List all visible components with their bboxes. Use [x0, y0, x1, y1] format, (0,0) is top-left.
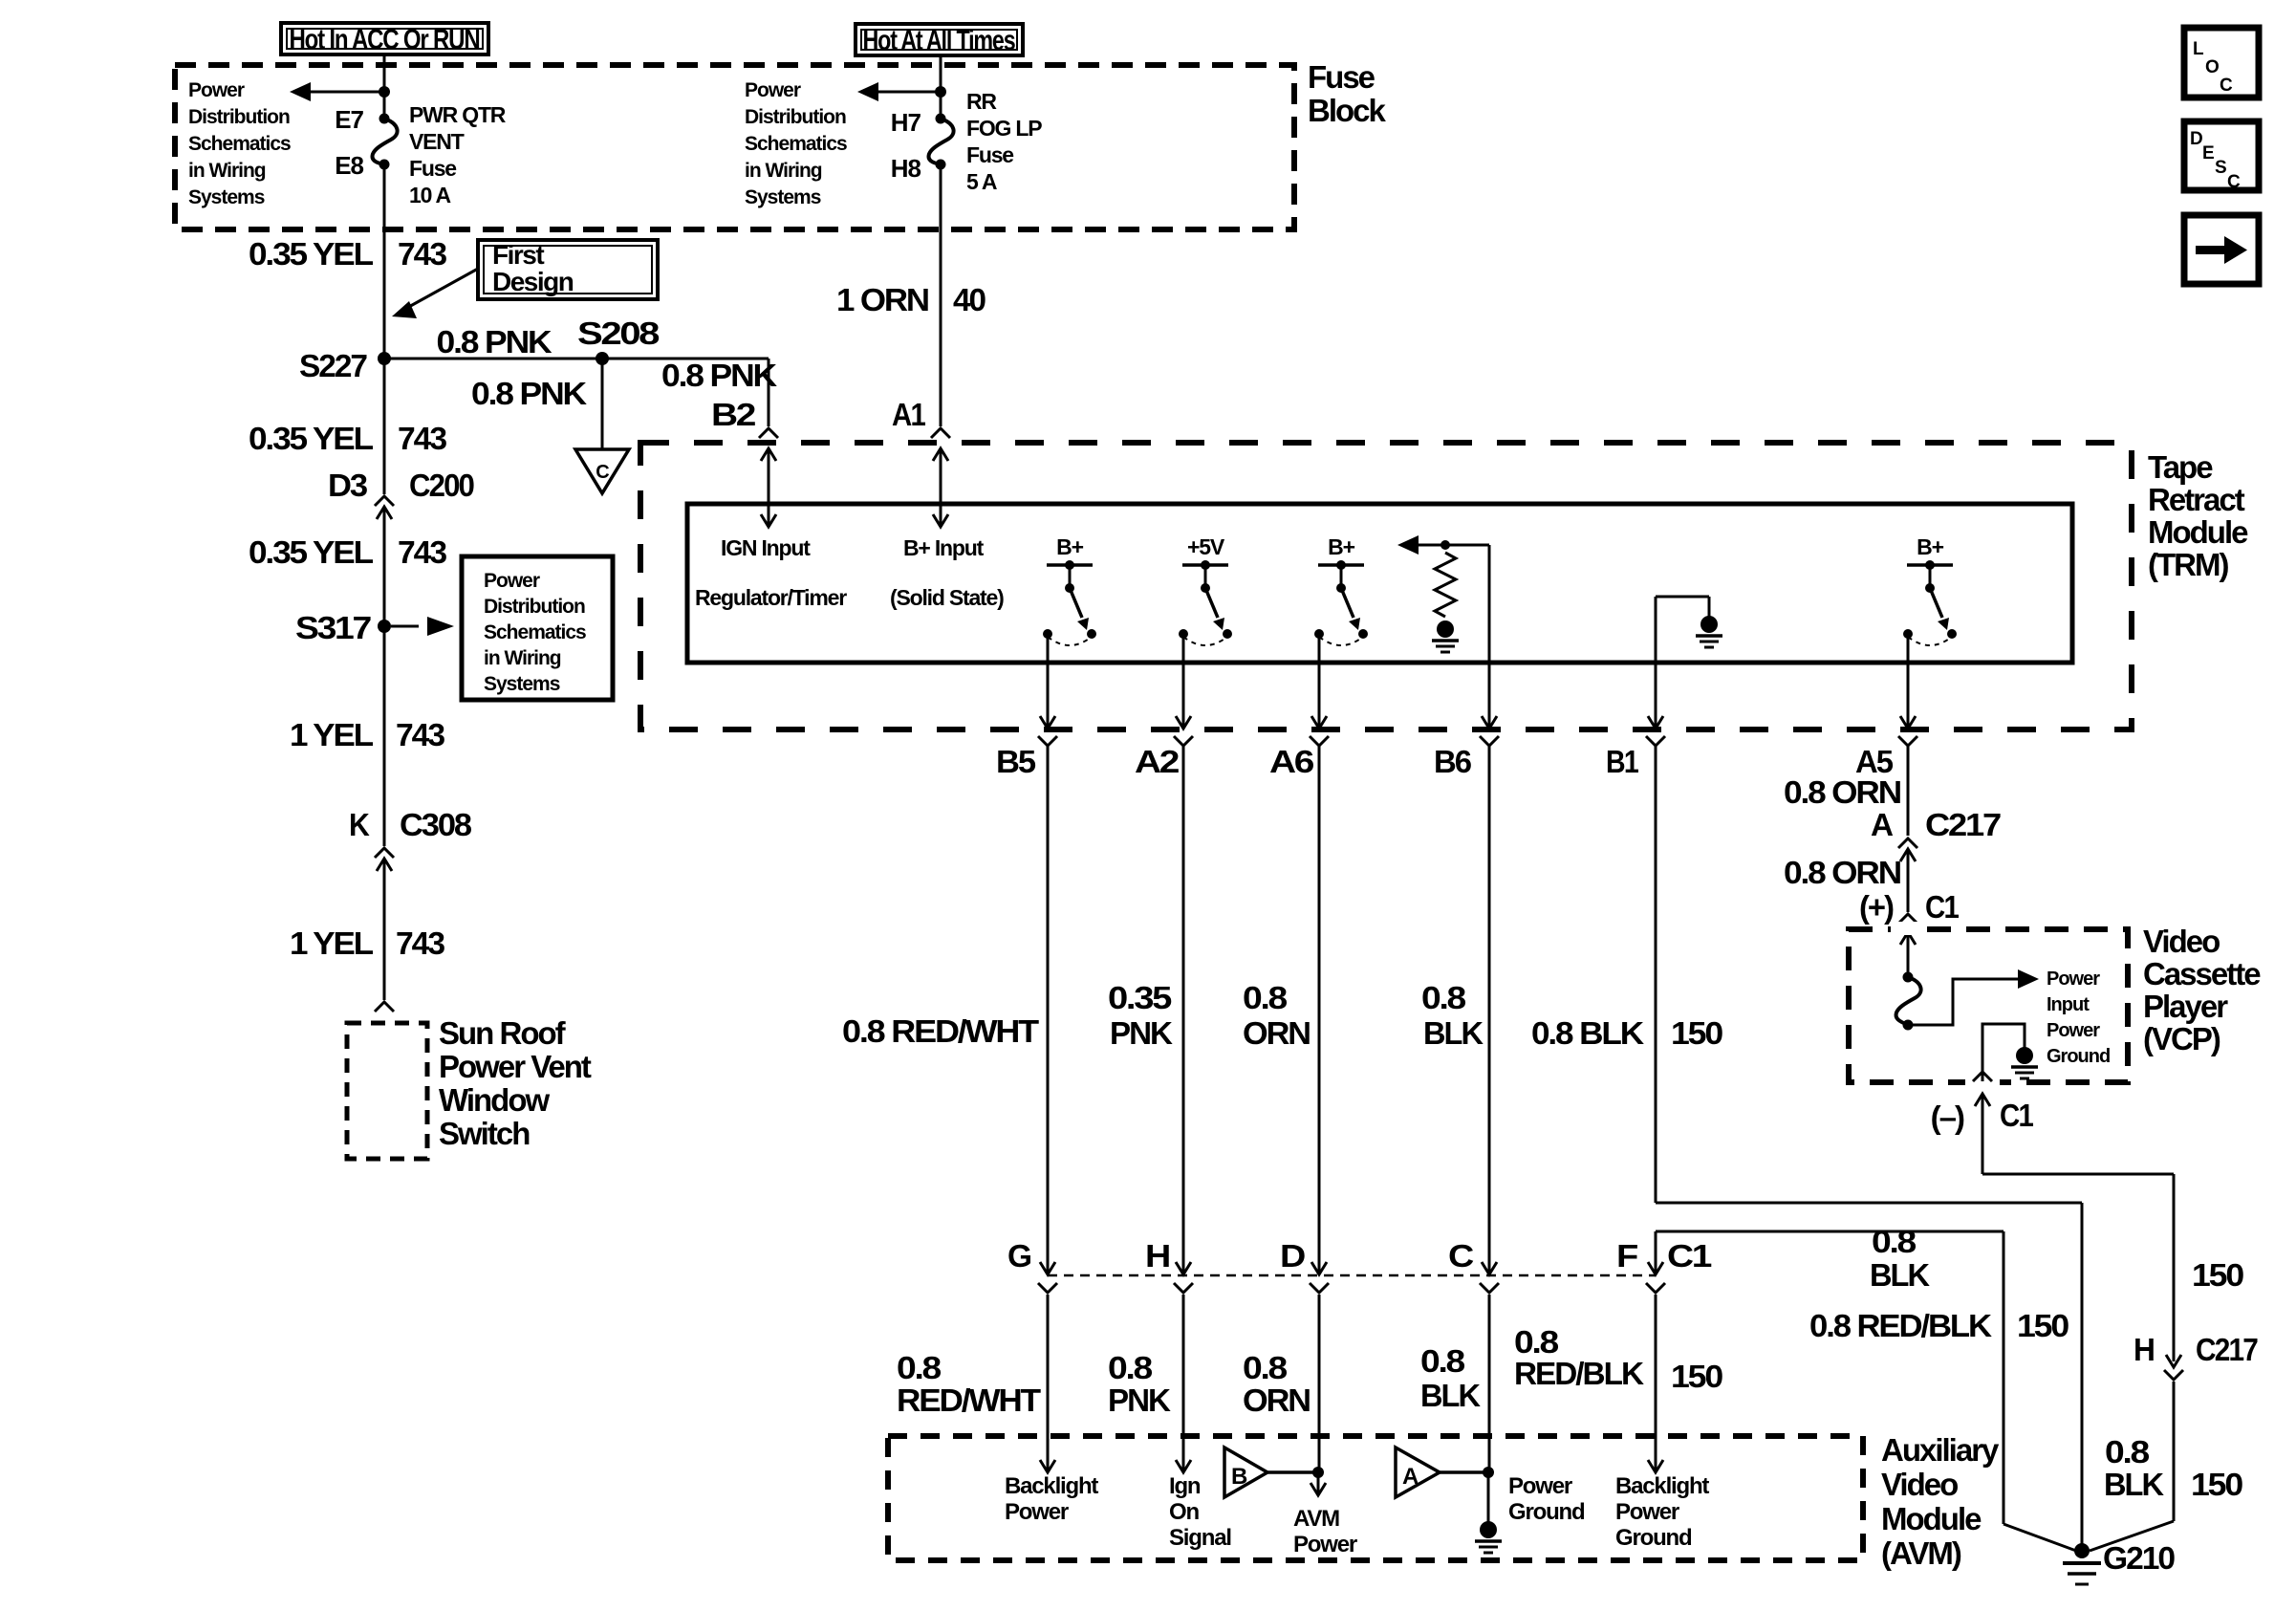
note box: Power Distribution Schematics in Wiring Systems	[462, 556, 613, 700]
arrow: power distribution feed (left)	[304, 91, 384, 94]
svg-text:Power Vent: Power Vent	[439, 1049, 592, 1084]
svg-text:C200: C200	[409, 468, 474, 503]
junction: AVM power node	[1312, 1467, 1324, 1478]
svg-text:0.35 YEL: 0.35 YEL	[249, 236, 374, 272]
wire: B5 to AVM G	[1047, 746, 1050, 1274]
svg-text:C1: C1	[2000, 1098, 2033, 1133]
svg-text:FOG LP: FOG LP	[966, 116, 1042, 141]
ground (B1 column, internal)	[1700, 616, 1718, 633]
wire: Hot In ACC Or RUN feed down to fuse E7	[383, 54, 386, 119]
svg-text:RED/BLK: RED/BLK	[1514, 1356, 1644, 1391]
svg-text:PNK: PNK	[1110, 1015, 1173, 1051]
connector F at AVM harness	[1648, 1262, 1663, 1274]
svg-text:Window: Window	[439, 1082, 550, 1118]
svg-text:B+: B+	[1917, 534, 1943, 559]
wire: B6 internal drop	[1488, 545, 1491, 729]
svg-text:S: S	[2215, 158, 2226, 178]
wire: branch down to TRM B2	[768, 359, 770, 426]
svg-text:Input: Input	[2047, 994, 2090, 1015]
connector half B2	[759, 428, 778, 438]
svg-text:ORN: ORN	[1243, 1015, 1310, 1051]
svg-text:O: O	[2205, 57, 2219, 77]
wire: Hot At All Times feed down to fuse H7	[940, 56, 942, 119]
buffer A (AVM)	[1396, 1448, 1440, 1497]
fuse symbol inside VCP	[1903, 972, 1914, 983]
svg-text:Power: Power	[2047, 969, 2100, 990]
ground C (triangle)	[575, 449, 629, 493]
svg-text:H: H	[2134, 1332, 2154, 1367]
svg-text:E: E	[2202, 143, 2214, 163]
ground stud G210	[2074, 1543, 2090, 1558]
svg-text:B1: B1	[1606, 744, 1638, 779]
svg-text:150: 150	[2192, 1257, 2243, 1293]
svg-text:BLK: BLK	[1420, 1378, 1481, 1413]
svg-text:Ground: Ground	[1508, 1499, 1585, 1525]
arrow pair: IGN input wire	[761, 448, 776, 461]
svg-text:Module: Module	[1881, 1501, 1982, 1536]
svg-text:Fuse: Fuse	[409, 156, 456, 181]
arrow: Backlight Power input	[1040, 1460, 1055, 1472]
svg-text:Video: Video	[2143, 924, 2220, 959]
svg-text:0.8 BLK: 0.8 BLK	[1531, 1015, 1644, 1051]
splice S227	[378, 352, 391, 365]
svg-text:ORN: ORN	[1243, 1382, 1310, 1418]
svg-text:On: On	[1169, 1499, 1199, 1525]
wire: A5 to VCP (0.8 ORN)	[1907, 746, 1910, 836]
wire: B1 internal drop	[1655, 597, 1657, 729]
wire: S208 down to ground C	[601, 359, 604, 449]
svg-text:Design: Design	[492, 267, 574, 296]
svg-text:1 ORN: 1 ORN	[836, 282, 928, 317]
fuse PWR QTR VENT 10A (E7/E8)	[379, 114, 390, 124]
svg-text:0.8: 0.8	[1108, 1350, 1153, 1385]
svg-text:in Wiring: in Wiring	[188, 160, 266, 182]
svg-text:First: First	[492, 240, 544, 270]
svg-text:Video: Video	[1881, 1467, 1958, 1502]
svg-text:H7: H7	[891, 108, 921, 137]
svg-text:Schematics: Schematics	[484, 621, 586, 643]
svg-text:K: K	[349, 807, 370, 842]
svg-text:150: 150	[2017, 1308, 2069, 1343]
label box: Hot In ACC Or RUN	[281, 23, 488, 54]
wires: G,H,D,C,F into AVM	[1047, 1295, 1050, 1470]
svg-text:VENT: VENT	[409, 129, 465, 154]
fuse block dashed box	[175, 65, 1294, 229]
svg-text:G: G	[1007, 1238, 1030, 1274]
svg-text:10 A: 10 A	[409, 183, 451, 207]
junction: hot feed node H	[935, 86, 946, 98]
wire: S227 to S208 to B2 drop (0.8 PNK)	[384, 358, 769, 360]
svg-text:0.8: 0.8	[1243, 1350, 1288, 1385]
svg-text:743: 743	[398, 236, 447, 272]
arrow pair: B+ input wire	[933, 448, 948, 461]
svg-text:0.35 YEL: 0.35 YEL	[249, 421, 374, 456]
icon box arrow	[2184, 215, 2259, 284]
svg-text:BLK: BLK	[2104, 1467, 2164, 1502]
svg-text:Ground: Ground	[1615, 1525, 1692, 1551]
svg-text:0.35: 0.35	[1108, 980, 1172, 1015]
svg-text:Power: Power	[484, 570, 540, 592]
arrow: S317 callout to power distribution note	[391, 625, 419, 628]
svg-text:D: D	[2190, 129, 2202, 149]
switch arm +5V	[1205, 588, 1218, 618]
svg-text:Hot In ACC Or RUN: Hot In ACC Or RUN	[290, 24, 480, 55]
svg-text:B+: B+	[1056, 534, 1083, 559]
wire: B1 internal elbow to ground	[1656, 596, 1709, 599]
svg-text:743: 743	[396, 925, 445, 961]
svg-text:+5V: +5V	[1187, 534, 1225, 559]
connector B1 at TRM edge	[1648, 716, 1663, 729]
arrow up into VCP	[1975, 1094, 1990, 1106]
svg-text:0.8 ORN: 0.8 ORN	[1784, 774, 1900, 810]
wire: VCP power input path	[1908, 979, 2025, 1025]
svg-text:(–): (–)	[1931, 1099, 1964, 1135]
ground (resistor, internal)	[1437, 620, 1454, 638]
svg-text:Fuse: Fuse	[1308, 59, 1375, 95]
in-line connector A / C217	[1898, 838, 1917, 848]
svg-text:150: 150	[1671, 1359, 1722, 1394]
svg-text:RR: RR	[966, 89, 997, 114]
module: Auxiliary Video Module (AVM) dashed box	[888, 1436, 1863, 1560]
svg-text:Ground: Ground	[2047, 1046, 2110, 1067]
switch arm B+	[1341, 588, 1354, 618]
svg-text:Retract: Retract	[2148, 482, 2245, 517]
svg-text:Power: Power	[745, 79, 801, 101]
svg-text:A: A	[1402, 1464, 1419, 1490]
connector C at AVM harness	[1482, 1262, 1497, 1274]
svg-text:PWR QTR: PWR QTR	[409, 102, 507, 127]
connector half at sunroof switch	[375, 1002, 394, 1012]
svg-text:Distribution: Distribution	[745, 106, 846, 128]
svg-text:C217: C217	[2196, 1332, 2258, 1367]
svg-text:BLK: BLK	[1423, 1015, 1484, 1051]
svg-text:150: 150	[1671, 1015, 1722, 1051]
svg-text:0.8: 0.8	[897, 1350, 942, 1385]
svg-text:(Solid State): (Solid State)	[890, 585, 1004, 610]
svg-text:B5: B5	[996, 744, 1036, 779]
wire: S227 down to C200 (0.35 YEL 743)	[383, 359, 386, 494]
svg-text:B+: B+	[1328, 534, 1354, 559]
svg-text:C308: C308	[400, 807, 472, 842]
svg-text:Fuse: Fuse	[966, 142, 1013, 167]
svg-text:Systems: Systems	[745, 186, 821, 208]
svg-text:0.8: 0.8	[1872, 1224, 1917, 1259]
wire: B1 drop (0.8 BLK 150)	[1655, 746, 1657, 1203]
svg-text:Power: Power	[1005, 1499, 1069, 1525]
wire: B1 elbow right and down to G210	[1656, 1202, 2082, 1205]
svg-text:AVM: AVM	[1293, 1506, 1339, 1532]
svg-text:743: 743	[396, 717, 445, 752]
connector A2 at TRM edge	[1176, 716, 1191, 729]
connector B5 at TRM edge	[1040, 716, 1055, 729]
icon arrow	[2196, 246, 2224, 254]
wire: A6 to AVM D	[1318, 746, 1321, 1274]
svg-text:(VCP): (VCP)	[2143, 1021, 2220, 1056]
svg-text:Regulator/Timer: Regulator/Timer	[695, 585, 847, 610]
wire: C200 to S317 (0.35 YEL 743)	[383, 507, 386, 626]
svg-text:5 A: 5 A	[966, 169, 997, 194]
svg-text:RED/WHT: RED/WHT	[897, 1382, 1041, 1418]
connector G at AVM harness	[1040, 1262, 1055, 1274]
connector half A1	[931, 428, 950, 438]
svg-text:0.8: 0.8	[1421, 980, 1466, 1015]
ground (AVM internal)	[1480, 1521, 1497, 1538]
svg-text:C1: C1	[1667, 1238, 1712, 1274]
svg-text:0.8 RED/BLK: 0.8 RED/BLK	[1809, 1308, 1992, 1343]
svg-text:Sun Roof: Sun Roof	[439, 1015, 567, 1051]
svg-text:Hot At All Times: Hot At All Times	[863, 25, 1016, 56]
svg-text:Auxiliary: Auxiliary	[1881, 1432, 2000, 1468]
wire: C217 H down to G210	[2173, 1382, 2176, 1521]
wire: H8 down to TRM A1 (1 ORN 40)	[940, 164, 942, 426]
svg-text:E7: E7	[335, 105, 363, 134]
svg-text:0.8 RED/WHT: 0.8 RED/WHT	[842, 1013, 1039, 1049]
svg-text:Power: Power	[2047, 1020, 2100, 1041]
svg-text:D3: D3	[328, 468, 368, 503]
icon box LOC	[2184, 28, 2259, 98]
TRM inner solid box	[687, 504, 2072, 663]
svg-text:0.8 PNK: 0.8 PNK	[471, 376, 587, 411]
svg-text:743: 743	[398, 421, 447, 456]
svg-text:Power: Power	[1615, 1499, 1679, 1525]
svg-text:E8: E8	[335, 151, 363, 180]
svg-text:Module: Module	[2148, 514, 2248, 550]
svg-text:0.35 YEL: 0.35 YEL	[249, 534, 374, 570]
wire: B6 to AVM C	[1488, 746, 1491, 1274]
svg-text:Power: Power	[188, 79, 245, 101]
svg-text:C: C	[1448, 1238, 1473, 1274]
connector H at AVM harness	[1176, 1262, 1191, 1274]
svg-text:Systems: Systems	[484, 673, 560, 695]
svg-text:Schematics: Schematics	[745, 133, 847, 155]
svg-text:H: H	[1145, 1238, 1169, 1274]
wires: switch outputs down through TRM bottom	[1047, 634, 1050, 729]
junction: power ground node	[1483, 1467, 1494, 1478]
svg-text:1 YEL: 1 YEL	[290, 717, 374, 752]
arrow: Backlight Power Ground input	[1648, 1460, 1663, 1472]
svg-text:Ign: Ign	[1169, 1473, 1201, 1499]
svg-text:in Wiring: in Wiring	[484, 647, 561, 669]
fuse RR FOG LP 5A (H7/H8)	[936, 114, 946, 124]
connector half (+) C1	[1898, 914, 1917, 924]
arrow into VCP	[1900, 932, 1916, 945]
svg-text:in Wiring: in Wiring	[745, 160, 822, 182]
svg-text:743: 743	[398, 534, 447, 570]
svg-text:C1: C1	[1925, 889, 1959, 925]
svg-text:BLK: BLK	[1870, 1257, 1930, 1293]
svg-text:S208: S208	[577, 316, 660, 351]
svg-text:0.8: 0.8	[2105, 1434, 2150, 1469]
wire: S317 to C308 (1 YEL 743)	[383, 626, 386, 846]
wires converging to G210	[2004, 1524, 2076, 1551]
svg-text:S227: S227	[299, 348, 367, 383]
svg-text:0.8 ORN: 0.8 ORN	[1784, 855, 1900, 890]
arrow: power distribution feed (right)	[872, 91, 941, 94]
svg-text:B: B	[1231, 1464, 1247, 1490]
svg-text:(AVM): (AVM)	[1881, 1535, 1961, 1571]
ground (VCP internal)	[2016, 1047, 2033, 1064]
svg-text:PNK: PNK	[1108, 1382, 1171, 1418]
svg-text:B2: B2	[711, 397, 756, 432]
svg-text:(+): (+)	[1859, 889, 1894, 925]
svg-text:0.8: 0.8	[1243, 980, 1288, 1015]
svg-text:40: 40	[953, 282, 986, 317]
switch arm B+	[1070, 588, 1082, 618]
svg-text:IGN Input: IGN Input	[721, 535, 811, 560]
connector D at AVM harness	[1311, 1262, 1327, 1274]
label box: First Design	[478, 240, 658, 299]
svg-text:C217: C217	[1925, 807, 2001, 842]
svg-text:L: L	[2193, 39, 2204, 59]
svg-text:G210: G210	[2103, 1540, 2175, 1576]
svg-text:Signal: Signal	[1169, 1525, 1231, 1551]
svg-text:D: D	[1280, 1238, 1305, 1274]
module: Tape Retract Module (TRM) dashed box	[640, 443, 2132, 729]
wire: E8 to S227 (0.35 YEL 743)	[383, 164, 386, 359]
svg-text:A1: A1	[892, 397, 925, 432]
svg-text:0.8 PNK: 0.8 PNK	[661, 358, 777, 393]
splice S208	[596, 352, 609, 365]
connector row C1 (AVM): dashed line	[1048, 1274, 1656, 1277]
wire: A2 to AVM H	[1182, 746, 1185, 1274]
svg-text:0.8 PNK: 0.8 PNK	[437, 324, 552, 359]
svg-text:C: C	[2227, 172, 2241, 192]
switch arm B+	[1930, 588, 1942, 618]
wire: C308 to sunroof switch (1 YEL 743)	[383, 859, 386, 1000]
svg-text:Distribution: Distribution	[188, 106, 290, 128]
svg-text:Tape: Tape	[2148, 449, 2213, 485]
connector half (-) C1 at VCP edge	[1973, 1072, 1992, 1081]
label box: Hot At All Times	[856, 24, 1023, 55]
arrow: AVM Power	[1310, 1483, 1326, 1495]
svg-text:Schematics: Schematics	[188, 133, 291, 155]
svg-text:A6: A6	[1269, 744, 1314, 779]
svg-text:(TRM): (TRM)	[2148, 547, 2228, 582]
svg-text:S317: S317	[295, 610, 371, 645]
connector A6 at TRM edge	[1311, 716, 1327, 729]
svg-text:1 YEL: 1 YEL	[290, 925, 374, 961]
svg-text:C: C	[2220, 76, 2233, 96]
wire: RED/BLK 150 elbow (backlight power ground)	[1656, 1230, 2004, 1233]
svg-text:F: F	[1616, 1238, 1637, 1274]
svg-text:A: A	[1871, 807, 1893, 842]
svg-text:0.8: 0.8	[1420, 1343, 1465, 1379]
svg-text:A2: A2	[1135, 744, 1180, 779]
svg-text:Player: Player	[2143, 989, 2228, 1024]
splice S317	[378, 620, 391, 633]
svg-text:B+ Input: B+ Input	[903, 535, 985, 560]
junction: hot feed node E	[379, 86, 390, 98]
icon box DESC	[2184, 121, 2259, 190]
svg-text:Power: Power	[1293, 1532, 1357, 1557]
svg-text:C: C	[596, 462, 609, 483]
svg-text:Systems: Systems	[188, 186, 265, 208]
buffer B (AVM)	[1224, 1448, 1267, 1497]
svg-text:Distribution: Distribution	[484, 596, 585, 618]
svg-text:Power: Power	[1508, 1473, 1572, 1499]
svg-text:0.8: 0.8	[1514, 1324, 1559, 1360]
svg-text:150: 150	[2191, 1467, 2242, 1502]
resistor (internal pull, B6 column)	[1409, 544, 1489, 547]
svg-text:Block: Block	[1308, 93, 1387, 128]
arrow: Ign On Signal input	[1176, 1460, 1191, 1472]
connector B6 at TRM edge	[1482, 716, 1497, 729]
arrow: First Design callout	[405, 269, 478, 309]
svg-text:Switch: Switch	[439, 1116, 530, 1151]
svg-text:Cassette: Cassette	[2143, 956, 2261, 991]
svg-text:B6: B6	[1434, 744, 1472, 779]
svg-text:Backlight: Backlight	[1615, 1473, 1709, 1499]
svg-text:Backlight: Backlight	[1005, 1473, 1098, 1499]
connector A5 at TRM edge	[1900, 716, 1916, 729]
component: Sun Roof Power Vent Window Switch (dashed box)	[347, 1023, 427, 1159]
module: Video Cassette Player (VCP) dashed box	[1849, 929, 2128, 1082]
wire: VCP power ground branch	[1982, 1024, 2025, 1081]
svg-text:H8: H8	[891, 154, 921, 183]
wire: (-) C1 down, elbow to H C217	[1982, 1094, 1984, 1174]
